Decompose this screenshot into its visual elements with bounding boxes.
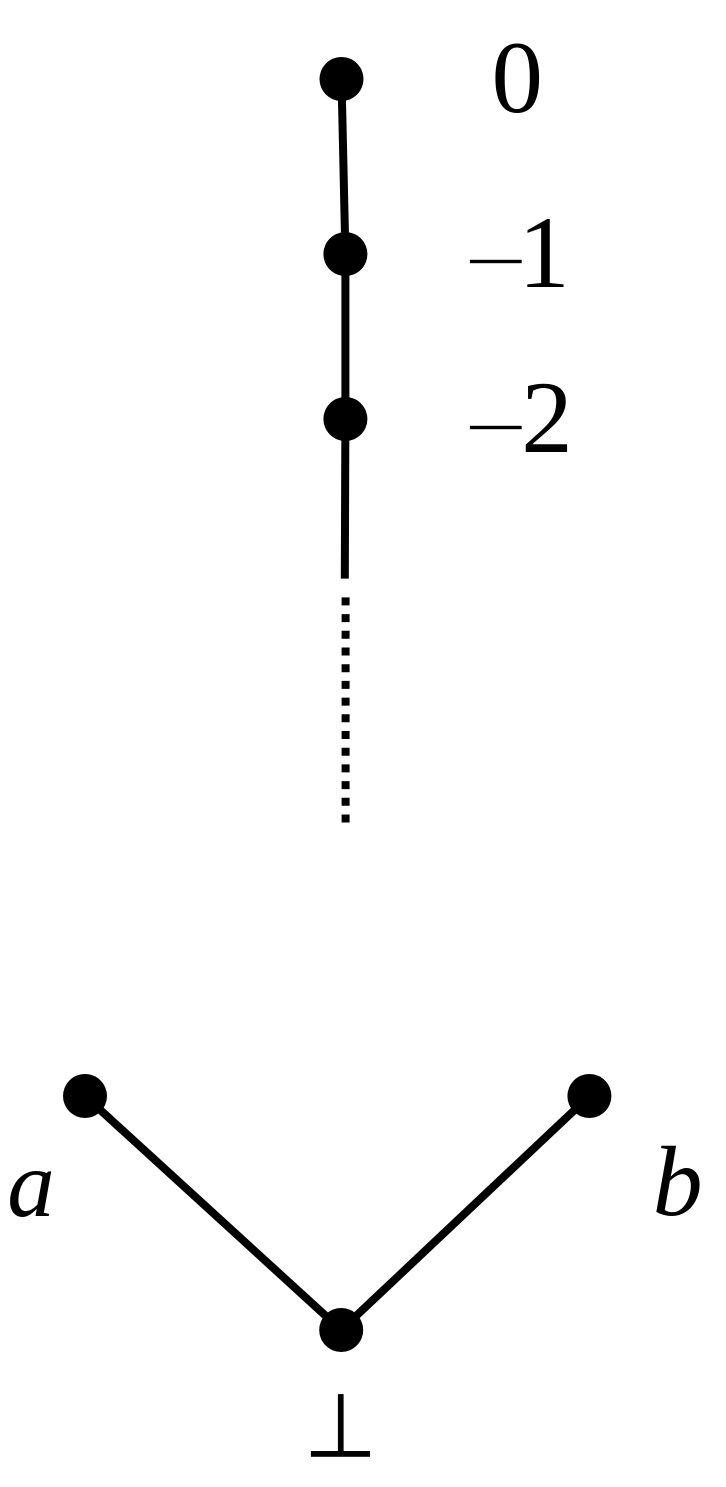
wire edge b to bottom [341,1096,589,1330]
node -2 [323,397,367,441]
label -1 minus sign [470,260,522,263]
wire edge a to bottom [85,1096,341,1330]
node bottom [319,1308,363,1352]
wire edge 0 to -1 [342,79,346,254]
label bottom symbol bar [311,1451,370,1457]
node -1 [323,232,367,276]
node a [63,1074,107,1118]
svg-text:2: 2 [521,361,573,475]
svg-text:b: b [653,1126,703,1237]
node b [567,1074,611,1118]
wire edge -1 to -2 [341,254,349,419]
label -2 minus sign [470,426,522,429]
svg-text:0: 0 [492,21,544,135]
node 0 [320,57,364,101]
label bottom symbol stem [338,1394,344,1451]
wire solid tail below -2 [341,419,350,579]
svg-text:1: 1 [518,196,570,310]
svg-text:a: a [7,1131,55,1237]
wire dotted continuation [342,597,350,822]
